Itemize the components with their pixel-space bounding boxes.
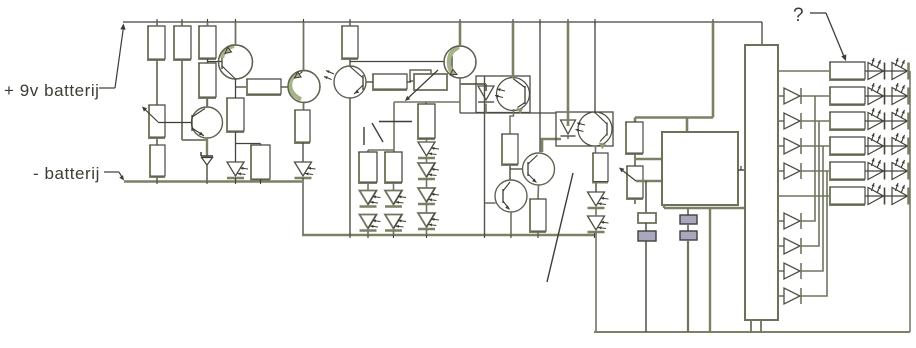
resistor R13 [417,104,436,141]
label ? [793,5,804,26]
wire U2 out row6 [778,195,830,197]
potentiometer P1 [142,105,166,146]
LED row2b [892,83,909,105]
wire chainC [426,139,428,213]
LED row1b [892,58,909,80]
node top-rail x235.5 [235,19,237,26]
transistor Q6 [495,180,527,235]
resistor R12 [384,152,403,185]
resistor R3 [198,22,217,63]
node top-rail x460 [459,19,461,26]
optocoupler OC2 box [556,112,613,146]
wire OC1 emitter [510,109,514,134]
node top-rail x595 [594,19,596,26]
capacitor C1 [638,213,656,223]
wire diode row2 [801,95,830,97]
node mid-rail x368 [367,232,369,238]
wire chainA [367,183,369,191]
annotation mark vertical [363,127,365,145]
wire P1 wiper to Q2 base [158,122,192,124]
LED D13 [588,208,609,232]
LED row3a [868,108,885,130]
resistor R1 [147,22,166,105]
wire Q4 to OC1 LED [460,84,486,91]
LED D10 [418,188,439,204]
diode D17 [784,163,801,179]
LED D1 [227,162,248,182]
node top-rail x513 [512,19,514,26]
OC1 phototransistor [497,78,530,114]
resistor R14 [501,134,519,181]
wire rail to OC1 [512,22,515,78]
LED D4 [360,191,381,207]
annotation mark diagonal [372,123,383,142]
resistor R18 [829,62,866,82]
capacitor C4 [680,231,697,240]
OC2 light rays [576,122,586,132]
node top-rail x157 [156,19,158,26]
LED D6 [385,191,406,207]
resistor R2 [173,22,207,140]
IC U1 [662,132,738,205]
potentiometer P2 [405,70,447,101]
wire node to Q6 base [484,76,486,235]
power rail +9V [123,22,762,45]
wire U2 out row1 [778,70,830,72]
wire U2 out row4 [778,145,784,147]
LED D12 [588,192,609,208]
wire IC to driver [738,166,745,170]
wire C4 ground [687,240,689,332]
resistor R21 [829,137,866,157]
wire rail to OC2 collector [594,22,596,114]
wire C3 feed [687,208,689,215]
resistor R5 [149,145,166,182]
node top-rail x713 [712,19,714,26]
resistor R7 [226,98,245,163]
capacitor C3 [680,215,697,224]
LED row5a [868,158,885,180]
diode D22 [784,288,801,304]
wire rail to IC [635,22,713,132]
node mid-rail x393.5 [393,232,395,238]
node top-rail x350 [349,19,351,26]
diode D19 [784,213,801,229]
svg-text:?: ? [793,5,804,26]
wire row5 leds [865,170,910,172]
wire IC bottom [664,205,745,332]
optocoupler OC1 box [476,76,530,113]
potentiometer P3 [619,166,644,205]
node mid-rail x594.5 [594,232,596,238]
wire P3 wiper to IC [636,181,662,213]
node top-rail x568 [567,19,569,26]
annotation long diagonal [547,173,573,282]
LED D9 [418,163,439,179]
U2 ground pins [751,320,761,332]
diode D16 [784,138,801,154]
resistor R10 [366,74,411,92]
OC2 phototransistor [578,112,612,149]
wire rail to OC2 LED [567,22,570,126]
wire Q5 base rail [350,61,444,63]
wire OC2 cathode to Q7 [542,139,561,152]
LED row1a [868,58,885,80]
node top-rail x207.5 [207,19,209,26]
ground rail right [594,331,910,333]
wire R17 to P3 [635,154,662,166]
wire chainB [393,183,395,191]
wire riser4 [801,171,827,296]
zener D2 [201,152,213,182]
resistor R8 [294,110,311,163]
wire U2 out lower3 [778,270,784,272]
resistor R20 [829,112,866,132]
wire node to OC2 [460,112,556,114]
LED D3 [295,162,316,235]
resistor R15 [529,199,547,236]
LED row6b [892,183,909,205]
wire row3 leds [865,120,910,122]
node mid-rail x511 [510,232,512,238]
wire diode row4 [801,145,830,147]
LED D8 [418,142,439,158]
node gnd-rail x260 [260,179,262,184]
ground rail left [124,180,302,182]
node gnd-rail x157 [156,179,158,184]
annotation arrow +9v [99,24,126,89]
resistor R4 [198,63,217,108]
diode D15 [784,113,801,129]
node mid-rail x426.5 [426,232,428,238]
node top-rail x182 [181,19,183,26]
transistor Q3 [288,22,320,110]
wire C2 ground [645,241,647,332]
wire riser2 [801,121,819,246]
transistor Q2 [192,98,223,138]
resistor R6 [246,79,288,97]
wire Q5 emitter [349,98,351,235]
transistor Q7 [523,153,555,199]
node mid-rail x350 [349,232,351,238]
wire U2 out lower2 [778,245,784,247]
node gnd-rail x207 [206,179,208,184]
node gnd-rail x235.5 [235,179,237,184]
diode D14 [784,88,801,104]
capacitor C2 [638,231,656,241]
LED row5b [892,158,909,180]
resistor R16 [592,153,609,193]
wire riser1 [801,96,815,221]
annotation arrow -batterij [104,172,124,181]
transistor Q1 [208,22,253,79]
transistor Q5 [324,66,366,98]
wire feed chains [368,102,460,152]
node top-rail x303.5 [303,19,305,26]
LED D7 [385,215,406,236]
svg-text:- batterij: - batterij [33,164,100,183]
node top-rail x540 [539,19,541,26]
wire row1 leds [865,70,910,72]
wire to R7b [236,144,261,146]
wire Q6 base [485,202,496,204]
LED row2a [868,83,885,105]
OC1 light rays [495,88,505,98]
wire Q2 emitter [206,138,208,156]
resistor R22 [829,162,866,182]
LED row4a [868,133,885,155]
OC1 LED [478,86,494,113]
wire rail to Q7 [539,22,541,152]
LED row6a [868,183,885,205]
node mid-rail x484.5 [484,232,486,238]
label - batterij [33,164,100,183]
wire OC2 emitter [595,146,597,153]
wire riser3 [801,146,823,271]
LED D5 [360,215,381,236]
diode D20 [784,238,801,254]
annotation arrow ? [810,13,846,61]
resistor R23 [829,187,866,207]
wire Q7 base feed [510,168,528,170]
resistor R7b [250,145,271,182]
resistor R11 [358,152,378,185]
LED D11 [418,213,439,235]
LED row3b [892,108,909,130]
label +9v batterij [4,81,100,100]
IC U2 [745,45,778,320]
wire U2 out lower1 [778,220,784,222]
diode D21 [784,263,801,279]
bus right [909,71,911,332]
wire U2 out row5 [778,170,784,172]
node mid-rail x538 [537,232,539,238]
resistor R17 [625,122,644,156]
wire C1 C2 [645,223,647,231]
resistor R9 [341,22,359,66]
resistor R19 [829,87,866,107]
wire to ground rail right [595,232,597,332]
annotation mark horizontal [379,121,412,123]
OC2 LED [561,120,576,139]
transistor Q4 [444,22,476,113]
wire row4 leds [865,145,910,147]
wire Q1 collector [236,79,248,99]
wire diode row3 [801,120,830,122]
wire U2 out lower4 [778,295,784,297]
LED row4b [892,133,909,155]
wire row2 leds [865,95,910,97]
ground rail middle [302,234,595,236]
wire U2 out row3 [778,120,784,122]
wire row6 leds [865,195,910,197]
wire C3 C4 [687,224,689,231]
wire U2 out row2 [778,95,784,97]
svg-text:+ 9v batterij: + 9v batterij [4,81,100,100]
wire diode row5 [801,170,830,172]
